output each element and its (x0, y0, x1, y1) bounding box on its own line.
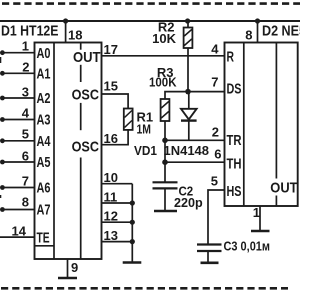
node: rail junction at D1 pin 18 (63, 18, 68, 23)
wire: R2 bottom crossing to DS node (187, 48, 189, 92)
node dot A5 (0, 160, 5, 165)
svg-text:A0: A0 (37, 45, 51, 62)
svg-text:A5: A5 (37, 154, 51, 171)
wire: pins 10-13 common vertical to ground (131, 184, 133, 263)
node dot A7 (0, 207, 5, 212)
dashed enclosure left border remnant 1 (0, 57, 2, 63)
IC D2 internal line 1 (243, 43, 245, 207)
wire: D1 pin 10 (102, 183, 133, 185)
svg-text:5: 5 (22, 126, 29, 141)
svg-text:11: 11 (104, 189, 118, 204)
IC D1 internal separator (pin-label column) (53, 43, 55, 260)
resistor R2 body (184, 28, 193, 49)
svg-text:1M: 1M (137, 122, 152, 137)
svg-text:A7: A7 (37, 202, 51, 219)
resistor R3 body (161, 99, 170, 121)
IC D1 center line segment 4 (80, 158, 82, 260)
capacitor C2 top plate (153, 181, 178, 183)
svg-text:TE: TE (37, 229, 50, 246)
dashed enclosure bottom border (0, 287, 288, 290)
node dot A1 (0, 71, 5, 76)
svg-text:A6: A6 (37, 180, 51, 197)
svg-text:4: 4 (22, 105, 30, 120)
resistor R2 hatch (184, 30, 191, 37)
wire: input A7 (pin 8) (2, 209, 34, 211)
wire: C3 bottom to ground (207, 252, 209, 263)
svg-text:D2 NE55: D2 NE55 (262, 24, 300, 40)
dashed enclosure left border remnant 2 (0, 195, 2, 198)
ground bar at D2 pin 1 (251, 230, 270, 233)
IC D2 internal line 2 (gap at OUT) (275, 43, 277, 179)
svg-text:1: 1 (253, 205, 260, 220)
wire: input A0 (pin 1) (2, 52, 34, 54)
svg-text:8: 8 (245, 28, 252, 43)
svg-text:10: 10 (104, 170, 118, 185)
svg-text:R: R (227, 49, 235, 66)
node dot A6 (0, 185, 5, 190)
resistor R3 hatch (161, 102, 168, 109)
wire: D1 pin 12 (102, 221, 133, 223)
svg-text:16: 16 (104, 131, 118, 146)
wire: DS (pin 7) to R3 top (165, 92, 225, 99)
svg-text:9: 9 (71, 260, 78, 275)
wire: D1 pin 17 OUT to D2 pin 4 R (102, 55, 225, 57)
svg-text:OSC: OSC (72, 138, 100, 155)
diode VD1 wire to TR wire (188, 121, 190, 141)
capacitor C2 bottom plate (153, 187, 178, 189)
dashed enclosure top border (0, 2, 300, 5)
node dot A2 (0, 96, 5, 101)
node dot pin 11 (130, 200, 135, 205)
node dot at TH junction (162, 159, 168, 165)
IC D1 HT12E body (35, 43, 102, 260)
wire: D2 pin 1 to ground (259, 206, 261, 231)
svg-text:TH: TH (227, 156, 242, 173)
diode VD1 cathode bar (181, 119, 197, 121)
wire: D1 pin 15 to R1 top (102, 94, 129, 109)
ground bar at C3 (201, 261, 219, 264)
svg-text:C3 0,01м: C3 0,01м (224, 239, 271, 254)
IC D2 NE555 body (225, 43, 298, 207)
svg-text:1: 1 (22, 39, 29, 54)
wire: C2 bottom to ground (164, 190, 166, 212)
resistor R2 wire from rail (187, 21, 189, 28)
svg-text:D1 HT12E: D1 HT12E (1, 24, 59, 40)
svg-text:A4: A4 (37, 133, 51, 150)
svg-text:OUT: OUT (270, 180, 297, 197)
svg-text:15: 15 (104, 79, 118, 94)
svg-text:14: 14 (12, 223, 27, 238)
svg-text:2: 2 (212, 124, 219, 139)
svg-text:5: 5 (211, 174, 218, 189)
node: rail junction at D2 pin 8 (255, 18, 260, 23)
svg-text:10K: 10K (152, 31, 176, 46)
svg-text:VD1: VD1 (134, 143, 157, 158)
wire: TE input (pin 14) (0, 236, 35, 238)
svg-text:13: 13 (104, 228, 118, 243)
wire: D1 pin 9 to ground (67, 259, 69, 278)
svg-text:17: 17 (104, 42, 118, 57)
diode VD1 wire from DS node (188, 92, 190, 109)
IC D1 center line segment 3 (80, 103, 82, 130)
svg-text:7: 7 (22, 173, 29, 188)
wire: D1 pin 13 (102, 241, 133, 243)
svg-text:6: 6 (22, 148, 29, 163)
svg-text:OSC: OSC (72, 87, 100, 104)
resistor R1 hatch (125, 111, 132, 118)
svg-text:OUT: OUT (73, 49, 101, 66)
wire: input A5 (pin 6) (2, 161, 34, 163)
svg-text:A1: A1 (37, 66, 51, 83)
wire: TH (pin 6) (165, 161, 225, 163)
node dot at TR junction (162, 138, 168, 144)
wire: R3 bottom to TR node, to TH node, to C2 (164, 121, 166, 182)
node dot A3 (0, 117, 5, 122)
svg-text:6: 6 (214, 147, 221, 162)
svg-text:8: 8 (22, 195, 29, 210)
capacitor C3 top plate (197, 243, 222, 245)
node dot pin 12 (130, 220, 135, 225)
ground bar at D1 pin 9 (58, 277, 77, 280)
svg-text:TR: TR (227, 132, 242, 149)
ground bar at pins 10-13 (123, 261, 142, 264)
ground bar at C2 (154, 210, 177, 213)
svg-text:12: 12 (104, 209, 118, 224)
IC D1 center line segment 1 (80, 43, 82, 50)
svg-text:220p: 220p (174, 195, 203, 210)
wire: input A3 (pin 4) (2, 119, 34, 121)
node dot pin 13 (130, 239, 135, 244)
svg-text:2: 2 (22, 59, 29, 74)
node dot A4 (0, 138, 5, 143)
svg-text:1N4148: 1N4148 (164, 143, 210, 158)
resistor R1 body (124, 109, 133, 130)
wire: input A1 (pin 2) (2, 72, 34, 74)
wire: D1 pin 18 to rail (65, 21, 67, 43)
svg-text:100K: 100K (149, 75, 177, 90)
IC D1 internal divider under TE (35, 245, 55, 247)
wire: D2 pin 8 to rail (257, 21, 259, 43)
svg-text:4: 4 (211, 42, 219, 57)
wire: HS (pin 5) to C3 (208, 190, 225, 244)
wire: +V power rail (0, 20, 300, 22)
diode VD1 triangle (181, 109, 197, 120)
IC D1 center line segment 2 (80, 65, 82, 82)
wire: input A4 (pin 5) (2, 140, 34, 142)
svg-text:DS: DS (227, 81, 242, 98)
svg-text:A2: A2 (37, 90, 51, 107)
node dot at DS junction (185, 89, 191, 95)
svg-text:HS: HS (227, 183, 242, 200)
capacitor C3 bottom plate (197, 250, 222, 252)
svg-text:A3: A3 (37, 112, 51, 129)
wire: input A2 (pin 3) (2, 97, 34, 99)
wire: R1 bottom to D1 pin 16 (102, 130, 129, 145)
node dot A0 (0, 50, 5, 55)
svg-text:3: 3 (22, 84, 29, 99)
wire: TR (pin 2) (165, 139, 225, 141)
wire: input A6 (pin 7) (2, 187, 34, 189)
wire: D1 pin 11 (102, 202, 133, 204)
node: rail junction at R2 (185, 18, 190, 23)
svg-text:7: 7 (211, 75, 218, 90)
svg-text:18: 18 (68, 28, 82, 43)
